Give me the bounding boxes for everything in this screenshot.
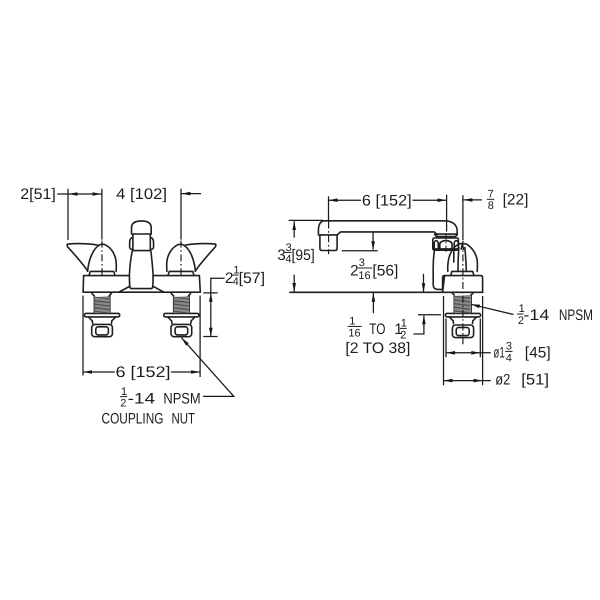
deck body <box>83 276 200 293</box>
arrow dim 6[152] right-view right <box>438 198 447 202</box>
arrow dim 2-1/4[57] up <box>209 293 213 302</box>
dim 2-3/16[56] lines <box>342 232 424 292</box>
svg-text:[45]: [45] <box>525 344 551 361</box>
svg-text:4: 4 <box>506 352 512 364</box>
svg-text:2: 2 <box>120 397 126 409</box>
arrow dim 2[51] left <box>69 192 78 196</box>
side shank <box>445 293 480 338</box>
left shank assembly <box>84 292 119 336</box>
npsm right leader <box>471 304 514 314</box>
svg-text:2: 2 <box>350 263 359 280</box>
spout underside <box>337 232 437 235</box>
escutcheon tent skirt <box>119 286 163 292</box>
left shank threads hatch <box>95 296 110 313</box>
svg-text:3: 3 <box>359 257 365 269</box>
base block <box>443 276 483 293</box>
arrow dim 2-3/16[56] upper <box>371 241 375 250</box>
svg-text:ø1: ø1 <box>493 344 504 361</box>
spout neck and column through deck <box>129 251 153 289</box>
side shank threads hatch <box>454 295 471 313</box>
spout dome front <box>132 221 152 234</box>
svg-text:[57]: [57] <box>239 270 265 287</box>
arrow dim 1/16-counter up <box>372 293 376 302</box>
left handle <box>67 244 116 276</box>
arrow dim 6[152] left-view left <box>83 370 92 374</box>
arrow dim 3-3/4[95] up <box>292 221 296 230</box>
left handle centerline <box>101 241 103 276</box>
arrow dim dia1-3/4 right <box>471 351 480 355</box>
arrow dim 6[152] right-view left <box>329 198 338 202</box>
svg-text:[51]: [51] <box>521 371 549 388</box>
svg-text:1: 1 <box>401 318 407 330</box>
dim 6[152] left lines <box>83 296 200 378</box>
dim 7/8[22] lines <box>463 195 482 240</box>
dim 3-3/4[95] lines <box>289 220 323 291</box>
svg-text:COUPLING: COUPLING <box>102 410 164 427</box>
handle side view <box>448 243 478 271</box>
dim 1/16 to 1-1/2 lines <box>373 293 441 334</box>
svg-text:NPSM: NPSM <box>163 391 200 408</box>
arrow dim 7/8[22] <box>464 198 473 202</box>
dim dia 1-3/4[45] lines <box>446 319 491 358</box>
arrow dim 6[152] left-view right <box>191 370 200 374</box>
spout collar left ear <box>130 237 133 249</box>
dim 4[102] lines <box>181 189 201 240</box>
arrow npsm right leader <box>471 304 480 308</box>
svg-text:NUT: NUT <box>172 410 196 427</box>
svg-text:1: 1 <box>349 316 355 328</box>
arrow dim 2[51] right <box>93 192 102 196</box>
arrow coupling nut leader <box>182 338 189 346</box>
arrow dim dia2 right <box>474 379 483 383</box>
svg-text:4 [102]: 4 [102] <box>116 186 167 203</box>
svg-text:[95]: [95] <box>292 247 315 264</box>
right shank threads hatch <box>174 296 189 313</box>
arrow dim dia2 left <box>444 379 453 383</box>
svg-text:[22]: [22] <box>503 191 529 208</box>
svg-text:[2 TO 38]: [2 TO 38] <box>345 340 410 357</box>
right handle (mirrored) <box>167 244 216 276</box>
svg-text:16: 16 <box>348 328 360 340</box>
body centerline <box>462 241 464 345</box>
svg-text:8: 8 <box>488 200 494 212</box>
swivel collar <box>433 238 459 250</box>
svg-text:-14: -14 <box>523 307 550 324</box>
arrow dim 4[102] right <box>182 192 191 196</box>
body neck side <box>433 250 442 289</box>
svg-text:16: 16 <box>358 270 370 282</box>
spout arm <box>323 221 457 235</box>
right handle centerline <box>180 241 182 276</box>
svg-text:7: 7 <box>488 189 494 201</box>
dim 6[152] right lines <box>329 195 447 232</box>
svg-text:1: 1 <box>121 386 127 398</box>
svg-text:6 [152]: 6 [152] <box>362 192 412 209</box>
dim 2[51] lines <box>57 189 102 240</box>
spout nozzle <box>320 235 337 251</box>
right shank assembly <box>164 292 199 336</box>
arrow dim 2-1/4[57] down <box>209 328 213 337</box>
spout collar front <box>133 234 150 251</box>
spout collar right ear <box>150 237 153 249</box>
arrow dim 3-3/4[95] down <box>292 283 296 292</box>
svg-text:6 [152]: 6 [152] <box>116 364 171 381</box>
arrow dim dia1-3/4 left <box>446 351 455 355</box>
arrow dim 1-1/2 leader up <box>422 315 426 324</box>
svg-text:-14: -14 <box>128 391 156 408</box>
svg-text:TO: TO <box>369 321 385 338</box>
svg-text:3: 3 <box>506 341 512 353</box>
svg-text:NPSM: NPSM <box>559 307 593 324</box>
nozzle centerline <box>328 222 330 255</box>
spout end flange <box>435 234 458 237</box>
dim dia 2[51] lines <box>444 296 491 385</box>
svg-text:[56]: [56] <box>372 263 398 280</box>
dim 2-1/4[57] lines <box>203 278 224 336</box>
counter surface line <box>290 291 483 293</box>
svg-text:ø2: ø2 <box>495 371 510 388</box>
arrow dim 2-3/16[56] lower <box>422 283 426 292</box>
coupling nut leader <box>182 338 234 397</box>
svg-text:2[51]: 2[51] <box>20 186 56 203</box>
